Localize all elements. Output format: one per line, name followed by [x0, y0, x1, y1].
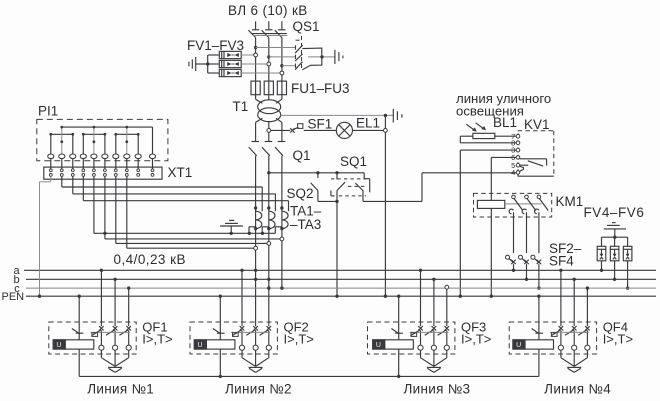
svg-text:Q1: Q1: [293, 148, 311, 163]
breaker SF3: [519, 255, 529, 264]
node: phase b to bus b: [267, 278, 270, 281]
label Линия №1: [87, 382, 154, 397]
wire: QF1 release to common wire: [78, 349, 80, 376]
breaker QF2 pole 1: [233, 326, 245, 358]
svg-text:I>,T>: I>,T>: [603, 332, 633, 347]
wire: SQ2 to SQ1 bottom: [318, 200, 339, 203]
label QF3: [461, 320, 486, 335]
QS1 fixed contact bar pole 1: [295, 45, 297, 49]
wire: phase c vertical (Q1 to bus c): [281, 156, 283, 288]
PI1 measuring element 3: [114, 126, 139, 154]
wire: XT1-6 voltage tap: [105, 176, 282, 239]
surge arrester FV2: [208, 60, 242, 67]
box KV1 dashed: [518, 131, 554, 177]
wire: QF4 pole 1 feed from bus a: [559, 269, 562, 327]
SQ1 fixed piece L: [331, 190, 335, 196]
transformer T1 primary winding: [258, 100, 281, 114]
label QF4: [603, 320, 628, 335]
PI1 terminal 7: [113, 154, 119, 159]
svg-text:KM1: KM1: [556, 194, 584, 209]
wire: PI1 terminal 9 to XT1: [137, 159, 139, 169]
wire: QF3 pole 1 feed from bus a: [419, 269, 422, 327]
wire: QF4 release to common wire: [538, 349, 540, 376]
PI1 measuring element 2: [82, 126, 106, 154]
breaker QF2 pole 2: [246, 326, 258, 358]
wire: earth to arrester manifold: [196, 63, 208, 65]
svg-text:FV4–FV6: FV4–FV6: [584, 205, 645, 220]
breaker QF3 pole 1: [411, 326, 423, 358]
wire: KV1 pin 6 to KM1 coil: [491, 157, 516, 200]
KV1 terminal pin 5: [511, 161, 520, 170]
node: QS1 tap junction phase 1: [254, 46, 257, 49]
box QF4 dashed: [509, 322, 596, 354]
PI1 terminal 1: [48, 154, 54, 159]
svg-text:U: U: [376, 342, 381, 349]
svg-text:Линия №1: Линия №1: [87, 382, 154, 397]
incoming line terminator phase 2: [265, 21, 272, 30]
contactor KM1 main contact 2: [522, 195, 536, 217]
wire: phase b vertical (Q1 to QF2 via buses): [268, 156, 270, 326]
label QF3 I>,T>: [461, 332, 491, 347]
switch Q1 pole 3: [275, 142, 285, 156]
PI1 measuring element 1: [49, 126, 74, 154]
wire: XT1-5 CT common: [94, 176, 276, 235]
svg-text:Линия №2: Линия №2: [225, 382, 292, 397]
wire: phase a vertical (Q1 to QF2 via buses): [255, 156, 257, 326]
box QF3 dashed: [368, 322, 455, 354]
svg-text:SF1: SF1: [308, 117, 333, 132]
wire: EL1 to PEN riser: [353, 129, 384, 131]
label QF1: [142, 320, 167, 335]
svg-text:I>,T>: I>,T>: [284, 332, 314, 347]
node: voltage tap circle phase: [254, 246, 258, 250]
box QF2 dashed: [190, 322, 277, 354]
PI1 terminal 6: [102, 154, 108, 159]
contactor KM1 main contact 3: [535, 195, 549, 217]
wire: FV2 to phase: [241, 63, 269, 65]
contactor coil KM1: [477, 200, 504, 208]
QF1 trip linkage: [90, 332, 130, 336]
incoming line slack diagonal phase 2: [262, 30, 269, 37]
svg-text:U: U: [516, 342, 521, 349]
breaker QF4 pole 1: [552, 326, 564, 358]
label FU1-FU3: [291, 81, 350, 96]
breaker SF2: [506, 255, 516, 264]
QF1 release contact: [72, 329, 84, 334]
surge arrester FV6: [623, 237, 632, 261]
breaker QF3 pole 2: [425, 326, 437, 358]
current transformer TA3: [275, 206, 288, 233]
incoming line terminator phase 3: [278, 21, 285, 30]
QF2 release contact: [213, 329, 225, 334]
bus PEN: [2, 291, 657, 303]
overhead line double stroke mark: [252, 34, 288, 36]
label Q1: [293, 148, 311, 163]
transformer T1 secondary winding: [258, 108, 281, 122]
svg-text:KV1: KV1: [524, 117, 550, 132]
QF4 release contact: [532, 329, 544, 334]
KV1 terminal pin 4: [511, 168, 520, 177]
undervoltage release U (QF2): [194, 340, 235, 349]
svg-text:XT1: XT1: [168, 165, 193, 180]
wire: HV phase C vertical (incoming to fuse): [281, 38, 283, 100]
wire: PI1 terminal 7 to XT1: [115, 159, 117, 169]
node: detachable tap circle FV1: [254, 53, 258, 57]
wire: FV1 to phase: [241, 54, 255, 56]
node: phase c to bus c: [280, 286, 283, 289]
node: SF1 tap circle on phase b: [267, 129, 271, 133]
earth (FV1-FV3): [189, 57, 196, 71]
incoming line slack diagonal phase 3: [275, 30, 282, 37]
wire: PI1 terminal 8 to XT1: [126, 159, 128, 169]
svg-text:QS1: QS1: [293, 19, 320, 34]
label: ВЛ 6 (10) кВ incoming overhead line: [228, 3, 308, 18]
node: voltage tap circle phase: [267, 242, 271, 246]
svg-text:ВЛ 6 (10) кВ: ВЛ 6 (10) кВ: [228, 3, 308, 18]
current transformer TA1: [249, 206, 262, 233]
PI1 terminal 5: [91, 154, 97, 159]
jumper KV1 pins 4-5: [518, 166, 524, 176]
wire: KM1 contact 1 to SF2: [513, 217, 515, 253]
wire: QF2 release to common wire: [219, 349, 221, 376]
earth (FV4-FV6): [604, 223, 626, 239]
node: detachable tap circle FV3: [280, 71, 284, 75]
svg-text:PI1: PI1: [38, 104, 58, 119]
terminal block XT1: [44, 167, 162, 179]
label QF4 I>,T>: [603, 332, 633, 347]
wire: phase b tap to SQ contacts: [267, 171, 364, 174]
KV1 terminal pin 7: [511, 132, 520, 141]
PI1 terminal 10: [149, 154, 155, 159]
KM1 linkage line: [505, 203, 542, 205]
KV1 terminal pin 3: [511, 146, 520, 155]
surge arrester FV3: [208, 69, 242, 76]
label KV1: [524, 117, 550, 132]
node: QS1 tap junction phase 3: [280, 64, 283, 67]
wire: KM1 contact 3 to SF4: [538, 217, 540, 253]
SQ1 linkage dashes: [331, 179, 366, 196]
incoming line slack diagonal phase 1: [248, 30, 255, 37]
limit switch SQ1 contact 2: [355, 173, 369, 202]
label FV4-FV6: [584, 205, 645, 220]
svg-text:4: 4: [511, 168, 515, 177]
node: voltage tap circle phase: [280, 237, 284, 241]
wire: QF2 undervoltage release feed from PEN: [219, 295, 222, 340]
wire: arrester manifold vertical: [206, 55, 209, 73]
QS1 blade pole 3: [295, 62, 302, 70]
T1 primary leads: [256, 99, 282, 103]
label SQ1: [340, 154, 367, 169]
wire: FV4-FV6 manifold: [602, 236, 628, 238]
QF2 outgoing cable arrow: [242, 358, 269, 373]
node: QF2 pole c feed from bus c: [267, 286, 270, 289]
label Линия №3: [403, 382, 470, 397]
label KM1: [556, 194, 584, 209]
wire: XT1-8 voltage tap: [127, 176, 256, 248]
surge arrester FV5: [610, 237, 619, 261]
svg-text:EL1: EL1: [356, 116, 380, 131]
bus b: [14, 274, 657, 286]
svg-text:–TA3: –TA3: [290, 217, 321, 232]
QF4 trip linkage: [550, 332, 589, 336]
label EL1: [356, 116, 380, 131]
svg-text:BL1: BL1: [493, 115, 517, 130]
limit switch SQ2 contact: [311, 171, 320, 201]
wire: QF1 pole 3 feed from bus c: [127, 286, 130, 326]
wire: QF2 pole 1 feed from bus a: [240, 269, 243, 327]
breaker QF4 pole 2: [565, 326, 577, 358]
PI1 terminal 8: [124, 154, 130, 159]
earth (TA secondary): [220, 220, 243, 233]
wire: PI1 terminal 3 to XT1: [72, 159, 74, 169]
incoming line terminator phase 1: [252, 21, 259, 30]
label PI1: [38, 104, 58, 119]
current transformer TA2: [262, 206, 275, 233]
PI1 terminal 3: [70, 154, 76, 159]
wire: KM1 coil to PEN bus: [490, 208, 493, 298]
wire: PI1 terminal 1 to XT1: [50, 159, 52, 169]
QS1 blade pole 2: [295, 54, 302, 61]
box QF1 dashed: [49, 322, 136, 354]
wire: SQ drop to PEN bus: [335, 201, 338, 298]
label QF1 I>,T>: [142, 332, 172, 347]
svg-text:FV1–FV3: FV1–FV3: [187, 38, 244, 53]
node: phase a to bus a: [254, 269, 257, 272]
undervoltage release U (QF3): [373, 340, 414, 349]
wire: LV phase a (T1 to Q1): [255, 122, 257, 141]
bus a: [14, 265, 657, 277]
svg-text:SQ1: SQ1: [340, 154, 367, 169]
wire: SQ1 to KV1 terminal 4: [363, 173, 516, 202]
PI1 terminal 2: [59, 154, 65, 159]
svg-text:U: U: [198, 342, 203, 349]
label SF2-SF4: [549, 241, 582, 269]
wire: QF1 pole 2 feed from bus b: [113, 278, 116, 327]
bus c: [14, 283, 656, 295]
breaker QF2 pole 3: [260, 326, 272, 358]
undervoltage release U (QF4): [513, 340, 554, 349]
wire: FV6 to bus c: [626, 261, 629, 290]
QF3 outgoing cable arrow: [421, 358, 447, 373]
KV1 terminal pin 8: [511, 138, 520, 147]
wire: QF3 release to common wire: [398, 349, 400, 376]
wire: QF4 undervoltage release feed from PEN: [537, 295, 540, 340]
wire: tap to QS1 pole 3: [282, 65, 296, 67]
label BL1: [493, 115, 517, 130]
wire: BL1 to KV1 pin 8: [460, 136, 516, 143]
label T1: [233, 99, 249, 114]
svg-text:0,4/0,23 кВ: 0,4/0,23 кВ: [114, 252, 186, 267]
T1 secondary leads: [256, 118, 282, 122]
node: QF3 pole 3 tap circle on bus c: [445, 285, 449, 326]
QS1 linkage frame: [302, 48, 322, 70]
QF4 outgoing cable arrow: [561, 358, 588, 373]
switch Q1 pole 2: [262, 142, 272, 156]
svg-text:PEN: PEN: [2, 291, 25, 303]
label QS1: [293, 19, 320, 34]
KV1 terminal pin 6: [511, 153, 520, 162]
QS1 blade pole 1: [295, 45, 302, 53]
label SF1: [308, 117, 333, 132]
QF3 trip linkage: [410, 332, 449, 336]
label QF2: [284, 320, 309, 335]
QF1 outgoing cable arrow: [101, 358, 128, 373]
wire: LV phase c (T1 to Q1): [281, 122, 283, 141]
node: EL1 connection circle: [384, 129, 388, 133]
wire: PI1 terminal 5 to XT1: [93, 159, 95, 169]
wire: PI1 terminal 6 to XT1: [104, 159, 106, 169]
label FV1-FV3: [187, 38, 244, 53]
wire: QF4 pole 2 feed from bus b: [573, 278, 576, 327]
wire: QF4 pole 3 feed from bus c: [586, 286, 589, 326]
QF2 trip linkage: [231, 332, 270, 336]
label QF2 I>,T>: [284, 332, 314, 347]
breaker QF3 pole 3: [438, 326, 450, 358]
switch Q1 pole 1: [249, 142, 259, 156]
QS1 fixed contact bar pole 2: [295, 55, 297, 59]
label XT1: [168, 165, 193, 180]
wire: KV1 pin 3 to PEN bus: [459, 150, 517, 298]
wire: FV3 to phase: [241, 72, 282, 74]
PI1 terminal 4: [80, 154, 86, 159]
QS1 mechanical linkage dashed: [296, 36, 302, 70]
wire: PI1 terminal 4 to XT1: [82, 159, 84, 169]
lamp EL1: [336, 122, 352, 138]
wire: FV4 to bus a: [600, 261, 603, 272]
svg-text:SF4: SF4: [549, 254, 574, 269]
wire: XT1-4 to TA3 secondary start: [83, 176, 288, 211]
surge arrester FV4: [597, 237, 606, 261]
node: QS1 tap junction phase 2: [267, 55, 270, 58]
limit switch SQ1 contact 1: [335, 171, 345, 201]
wire: SF2 to bus a: [512, 264, 515, 272]
svg-text:SQ2: SQ2: [287, 186, 314, 201]
label TA1-TA3: [290, 204, 322, 233]
svg-text:I>,T>: I>,T>: [461, 332, 491, 347]
wire: common release wire: [79, 375, 539, 378]
label Линия №4: [544, 382, 611, 397]
wire: QF1 pole 1 feed from bus a: [100, 269, 103, 327]
breaker QF1 pole 2: [106, 326, 118, 358]
wire: SF4 to bus c: [537, 264, 540, 290]
breaker SF4: [531, 255, 541, 264]
label SQ2: [287, 186, 314, 201]
wire: PI1 terminal 2 to XT1: [61, 159, 63, 169]
wire: HV phase B vertical (incoming to fuse): [268, 38, 270, 100]
box KM1 dashed: [474, 193, 552, 217]
wire: XT1-7 voltage tap: [116, 176, 269, 243]
photoresistor BL1: [466, 123, 495, 139]
wire: QF3 undervoltage release feed from PEN: [397, 295, 400, 340]
breaker QF1 pole 1: [92, 326, 104, 358]
wire: tap to QS1 pole 2: [269, 56, 296, 58]
svg-text:T1: T1: [233, 99, 249, 114]
wire: PEN riser (earth to PEN bus): [384, 115, 387, 298]
wire: XT1-3 to TA2 secondary start: [73, 176, 276, 211]
node: QF2 pole b feed from bus b: [254, 278, 257, 281]
breaker QF4 pole 3: [578, 326, 590, 358]
wire: T1 neutral to earth: [281, 114, 394, 117]
breaker QF1 pole 3: [120, 326, 132, 358]
svg-text:I>,T>: I>,T>: [142, 332, 172, 347]
label Линия №2: [225, 382, 292, 397]
svg-text:Линия №3: Линия №3: [403, 382, 470, 397]
QS1 fixed contact bar pole 3: [295, 64, 297, 68]
wire: SF3 to bus b: [525, 264, 528, 281]
wire: KM1 contact 2 to SF3: [526, 217, 528, 253]
node: detachable tap circle FV2: [267, 62, 271, 66]
wire: FV5 to bus b: [613, 261, 616, 281]
box PI1 dashed: [37, 119, 168, 160]
breaker SF1: [290, 124, 303, 133]
relay contact KV1: [520, 159, 547, 166]
wire: BL1 to KV1 pin 7: [495, 135, 516, 137]
label: линия уличного освещения: [456, 91, 551, 119]
fuse FU2: [264, 81, 273, 95]
fuse FU1: [251, 81, 260, 95]
wire: QS1 to earth: [308, 55, 335, 58]
wire: HV phase A vertical (incoming to fuse): [255, 38, 257, 100]
surge arrester FV1: [208, 51, 242, 58]
wire: QF3 pole 2 feed from bus b: [432, 278, 435, 327]
PI1 meter internal top bar: [62, 127, 153, 154]
earth (QS1): [335, 50, 343, 64]
wire: XT1-1 to PEN bus: [38, 176, 51, 298]
earth (T1 neutral): [393, 109, 402, 123]
wire: tap to QS1 pole 1: [256, 47, 296, 49]
wire: XT1-2 to TA1 secondary start: [62, 176, 262, 211]
svg-text:FU1–FU3: FU1–FU3: [291, 81, 350, 96]
wire: LV phase b (T1 to Q1): [268, 122, 270, 142]
fuse FU3: [277, 81, 286, 95]
undervoltage release U (QF1): [53, 340, 94, 349]
QF3 release contact: [391, 329, 403, 334]
contactor KM1 main contact 1: [509, 195, 523, 217]
PI1 terminal 9: [135, 154, 141, 159]
wire: PI1 terminal 10 to XT1: [152, 159, 154, 169]
svg-text:Линия №4: Линия №4: [544, 382, 611, 397]
svg-text:U: U: [56, 342, 61, 349]
label: 0,4/0,23 кВ: [114, 252, 186, 267]
wire: SF1 to EL1: [304, 129, 337, 131]
wire: tap to SF1: [271, 129, 291, 131]
wire: QF1 undervoltage release feed from PEN: [78, 295, 81, 340]
